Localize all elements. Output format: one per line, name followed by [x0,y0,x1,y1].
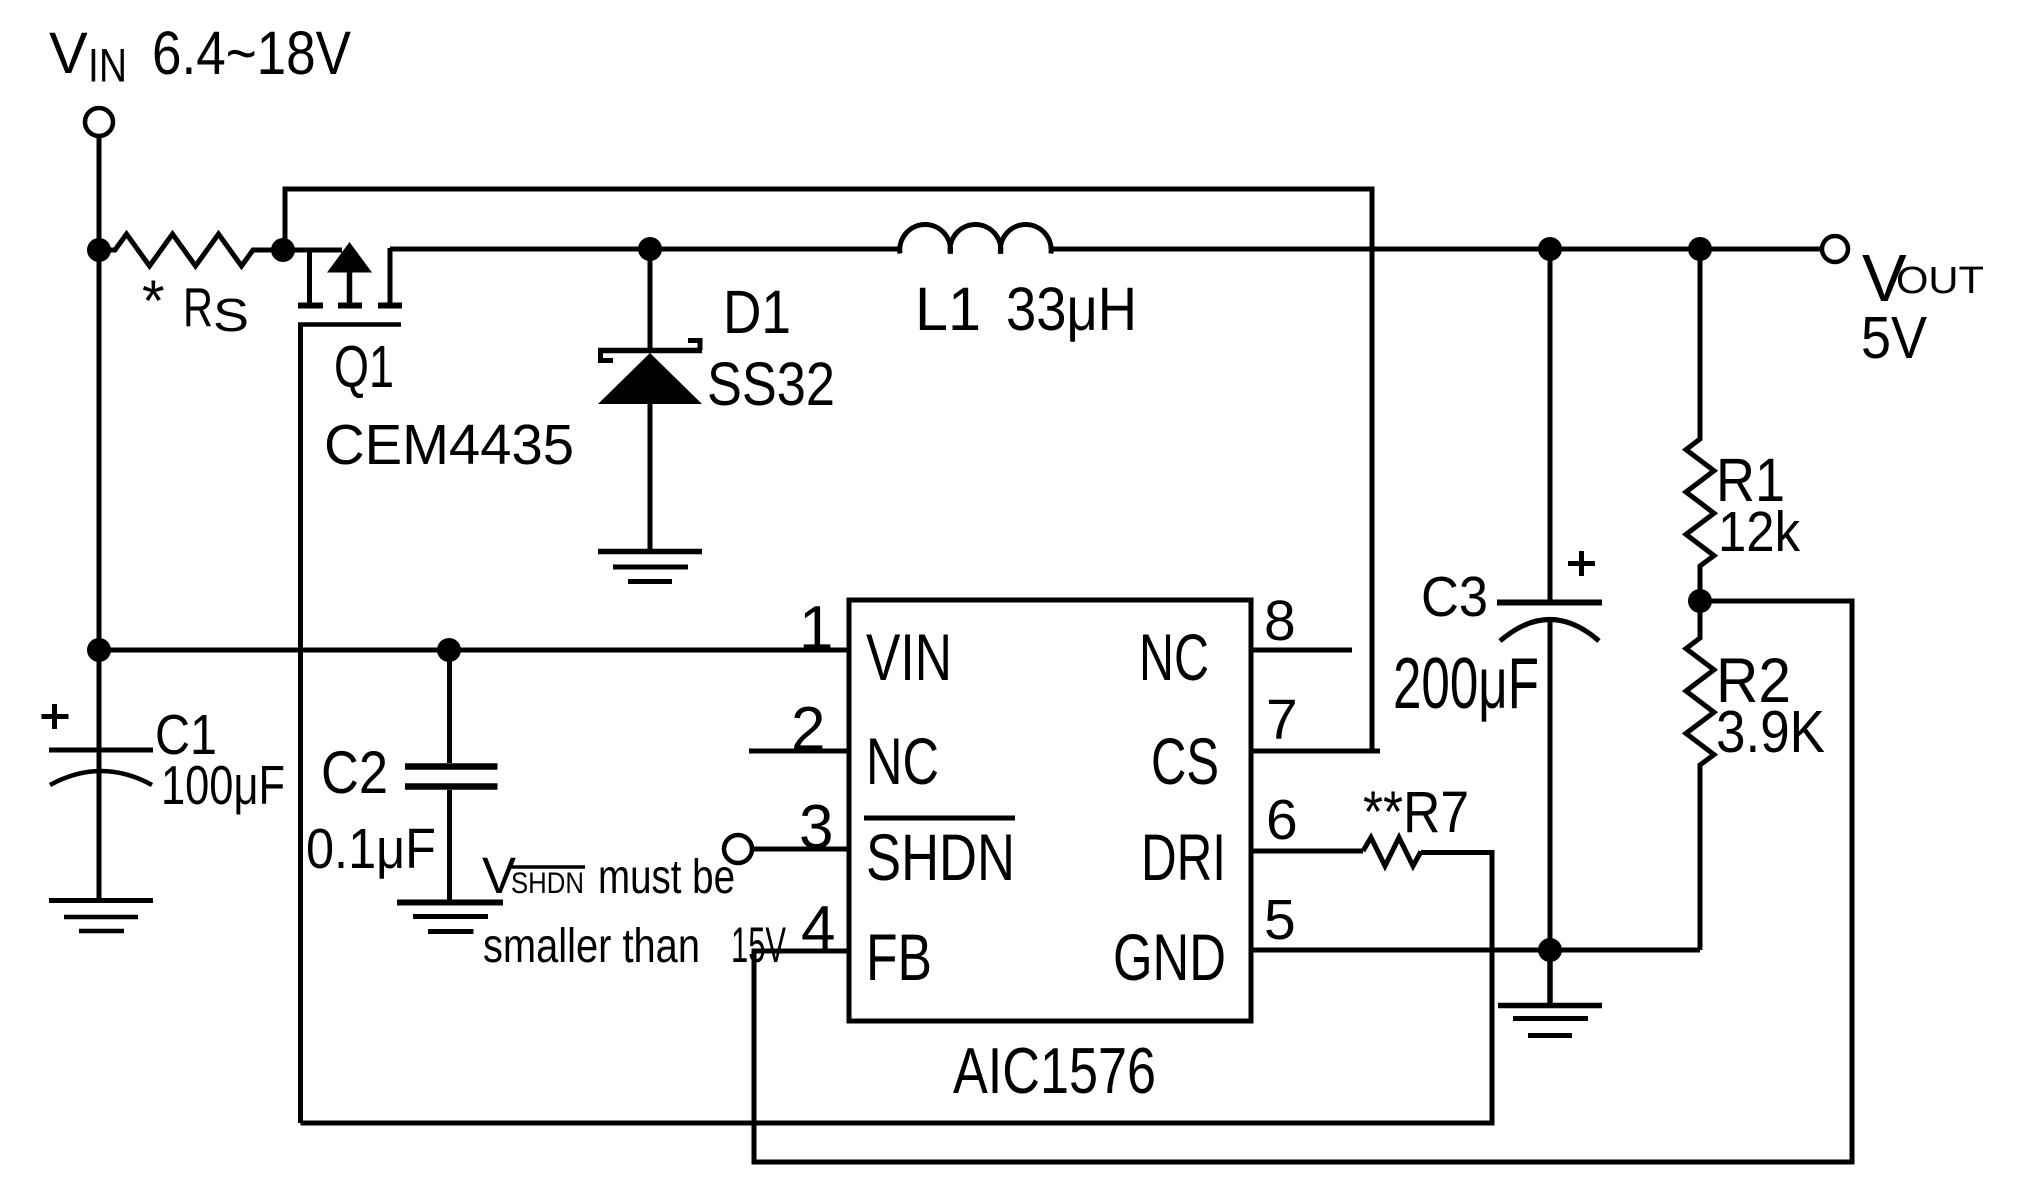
svg-text:100μF: 100μF [161,754,285,816]
svg-text:NC: NC [866,724,939,798]
ground D1 [598,552,702,582]
svg-text:15V: 15V [731,917,786,973]
svg-text:33μH: 33μH [1006,275,1137,343]
svg-text:IN: IN [88,39,127,92]
svg-text:SS32: SS32 [707,350,835,418]
inductor L1 [900,225,1051,254]
svg-text:GND: GND [1113,920,1226,994]
svg-text:3: 3 [799,793,833,862]
resistor R2 [1686,601,1714,950]
svg-text:AIC1576: AIC1576 [953,1034,1156,1107]
node A2 junction C1 [87,638,111,662]
terminal VOUT [1822,236,1848,262]
svg-text:200μF: 200μF [1393,644,1539,724]
wire NC pin 2 stub [749,749,849,754]
wire SHDN pin 3 [752,847,849,852]
svg-text:1: 1 [799,594,833,663]
diode D1 SS32 [598,249,702,549]
node D junction R1 [1688,237,1712,261]
svg-text:0.1μF: 0.1μF [306,817,436,881]
svg-text:CEM4435: CEM4435 [324,413,574,477]
wire R7 to Q1 gate [301,853,1493,1124]
wire node B up over to CS pin 7 [285,189,1372,751]
svg-text:L1: L1 [915,275,981,343]
svg-text:smaller than: smaller than [483,920,700,973]
svg-text:OUT: OUT [1896,260,1984,302]
wire NC pin 8 stub [1251,648,1352,653]
node F junction R1/R2/FB [1688,589,1712,613]
wire drain rail Q1 to L1 [390,247,901,252]
terminal SHDN pin 3 [724,835,752,863]
svg-text:FB: FB [866,920,932,994]
svg-text:NC: NC [1139,620,1209,694]
svg-text:5: 5 [1264,888,1296,952]
wire GND pin 5 [1251,948,1700,953]
capacitor C1 [42,650,154,902]
svg-text:7: 7 [1266,688,1298,752]
terminal VIN [85,108,113,136]
capacitor C2 [405,650,498,902]
resistor RS [99,234,342,266]
label L1 33uH [915,275,1137,343]
label VOUT 5V [1861,241,1984,371]
svg-text:**R7: **R7 [1363,780,1469,845]
label VIN 6.4~18V [49,19,351,92]
svg-text:C3: C3 [1421,565,1488,629]
node C junction C3 [1538,237,1562,261]
wire VIN vertical [97,137,102,651]
svg-text:SHDN: SHDN [511,867,584,900]
node A junction VIN/RS [87,238,111,262]
ground C2 [397,903,503,932]
svg-text:12k: 12k [1718,500,1800,564]
wire VIN pin 1 [99,648,849,653]
svg-text:SHDN: SHDN [866,820,1015,894]
note overline SHDN [511,865,585,869]
wire FB feedback loop [754,601,1852,1162]
transistor Q1 [298,242,402,1123]
wire CS pin 7 stub [1251,749,1380,754]
label * RS [142,269,249,341]
svg-text:D1: D1 [723,278,791,346]
pin label SHDN overline [864,816,1015,821]
svg-text:*: * [142,269,165,334]
node D1 junction [638,237,662,261]
svg-text:6.4~18V: 6.4~18V [152,19,351,87]
node G junction C2 [437,638,461,662]
svg-text:CS: CS [1151,724,1219,798]
node E junction GND [1538,938,1562,962]
svg-text:4: 4 [801,894,835,963]
svg-text:VIN: VIN [866,620,952,694]
note VSHDN must be smaller than 15V [482,847,786,973]
resistor R7 [1363,838,1421,867]
resistor R1 [1686,249,1714,601]
svg-text:R: R [183,276,213,338]
svg-text:V: V [49,21,88,86]
wire output rail [1051,247,1821,252]
svg-text:5V: 5V [1861,305,1928,371]
svg-text:6: 6 [1266,788,1298,852]
node B junction RS/Q1/CS [271,238,295,262]
svg-text:8: 8 [1264,589,1296,653]
ground C1 [49,901,153,932]
svg-text:2: 2 [791,695,825,764]
capacitor C3 [1497,249,1602,950]
op-amp U1 AIC1576 box [849,600,1251,1021]
svg-text:must be: must be [598,851,735,904]
svg-text:DRI: DRI [1141,820,1226,894]
svg-text:Q1: Q1 [334,334,394,400]
wire DRI pin 6 to R7 [1251,849,1363,854]
ground C3 [1498,950,1602,1036]
svg-text:C2: C2 [321,739,388,806]
svg-text:3.9K: 3.9K [1716,699,1825,765]
svg-text:S: S [213,289,249,341]
